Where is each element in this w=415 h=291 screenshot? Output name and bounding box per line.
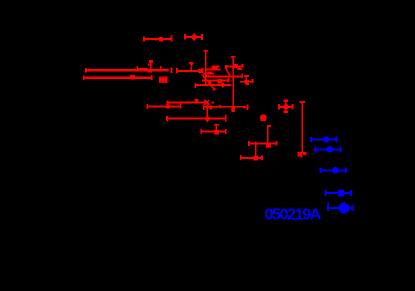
H3 long bar y=69.4 (86, 60, 172, 73)
B2 (315, 146, 341, 152)
diagonal arrow (202, 74, 216, 90)
H6 point y=66.4 (226, 64, 244, 69)
H5 bar y=71 (177, 68, 203, 73)
V8 tall vertical x=302.4 (298, 102, 307, 158)
B4 (325, 189, 352, 196)
H20 step piece y=68.8 (237, 68, 242, 70)
V9 + H22 cluster (240, 76, 253, 85)
svg-text:050219A: 050219A (265, 207, 322, 224)
H13 long row y=105.9 (147, 102, 247, 112)
H9 y=75.8 (206, 69, 243, 78)
H14 row y=117.5 (167, 110, 226, 123)
V2 long vertical x=233.2 (231, 56, 235, 110)
isolated cross H18 (278, 99, 293, 113)
H8 y=72.9 (203, 72, 214, 75)
B5 (328, 203, 354, 214)
B3 (320, 167, 347, 174)
H7 y=68.9 (206, 66, 221, 71)
W cluster x=159-167 (159, 76, 167, 83)
H10 y=81.2 (202, 78, 229, 84)
V1 vertical x=205.8 (204, 50, 208, 86)
H17 point y=156.5 (240, 141, 262, 160)
H1 point y=39 (144, 35, 172, 41)
H12 row y=101.5 (167, 100, 214, 105)
H11 y=85.1 with diamond (195, 82, 231, 88)
H2 point y=36.7 (185, 34, 202, 40)
R8 small down arrow at x=191.4 (189, 63, 193, 71)
B1 (311, 136, 337, 142)
H15 point y=131.9 (201, 125, 226, 135)
H16 point y=143.9 (248, 126, 276, 148)
H4 long bar y=77.3 (84, 75, 153, 80)
isolated circle marker (260, 114, 267, 121)
